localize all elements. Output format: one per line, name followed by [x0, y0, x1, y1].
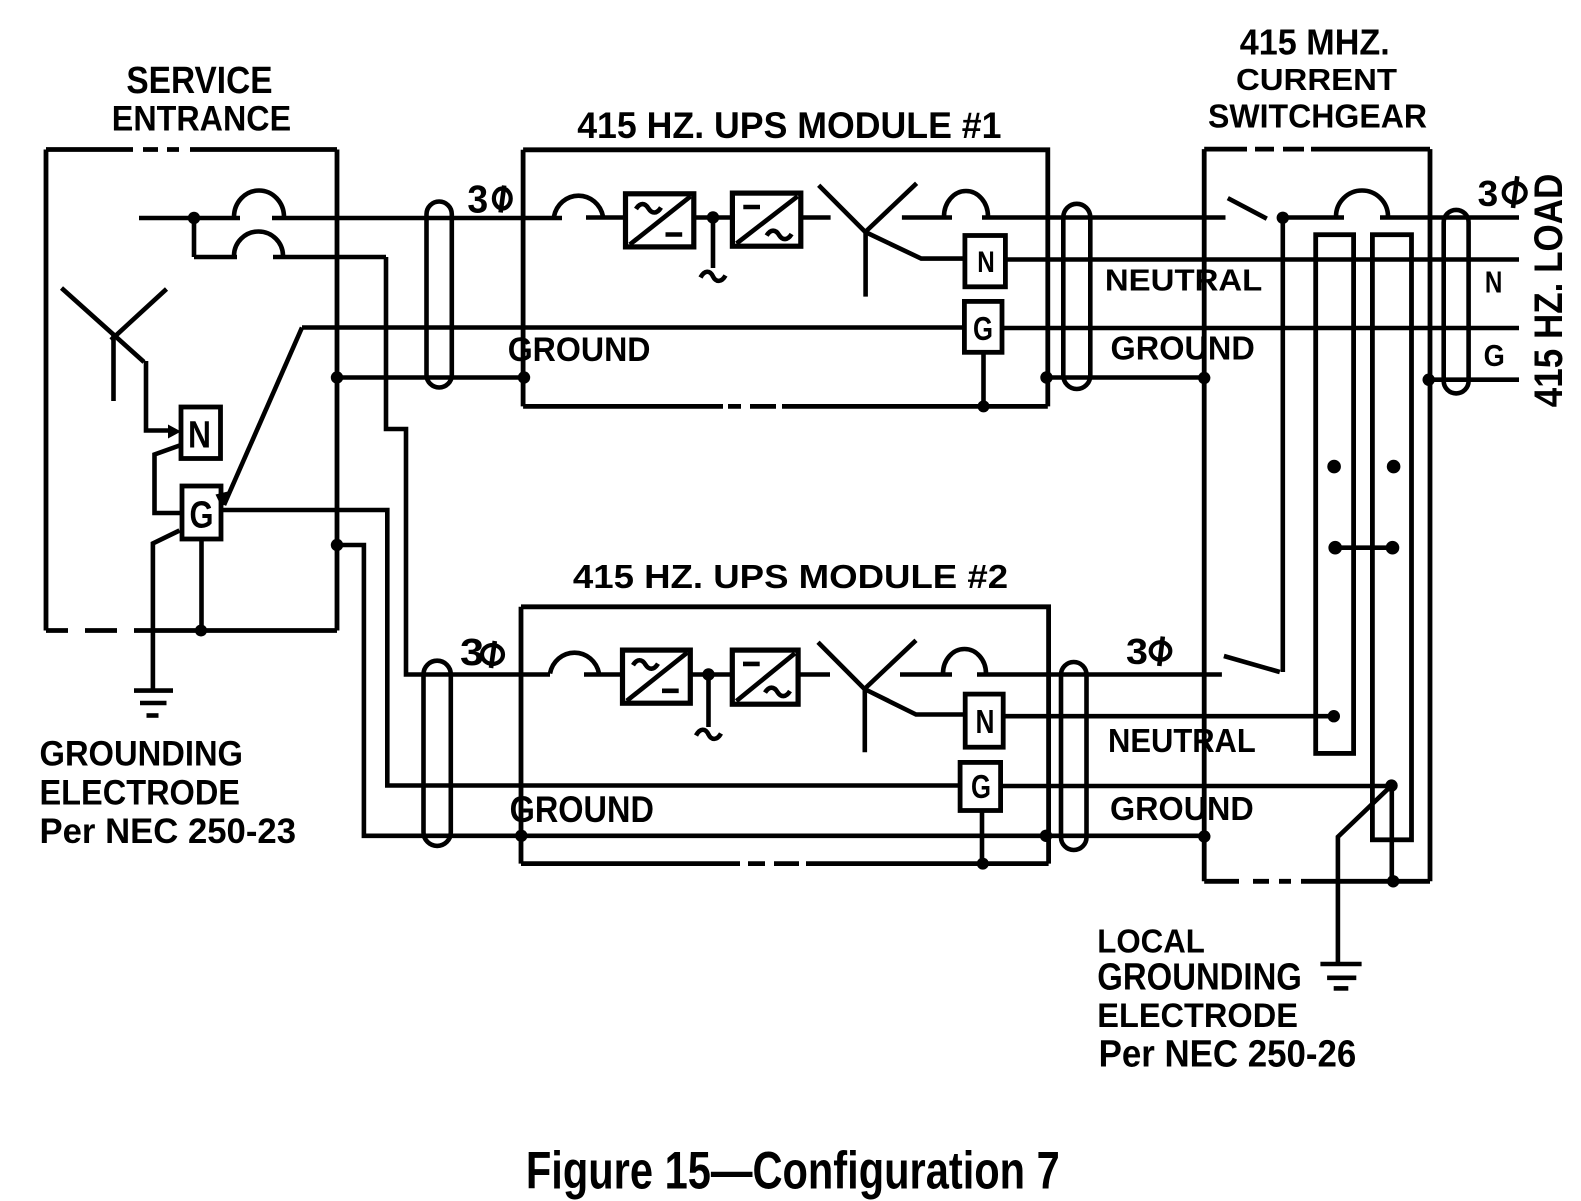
wire local grounding electrode conductor [1338, 786, 1392, 962]
svg-text:GROUND: GROUND [1111, 331, 1255, 368]
node junction dot ground module 2 terminus [1385, 779, 1397, 791]
wire G terminal bottom drop to enclosure bottom [199, 539, 204, 631]
current transformer CT1 loop [1316, 235, 1354, 754]
svg-text:SERVICE: SERVICE [126, 60, 272, 102]
svg-text:415 HZ. UPS MODULE #1: 415 HZ. UPS MODULE #1 [577, 105, 1001, 146]
wire module 1 phase to rectifier [586, 215, 626, 220]
wire paralleling bus vertical [1281, 218, 1286, 672]
wire equipment bond service box to module 1 enclosure [337, 375, 524, 380]
node junction dot module 2 enclosure right (ground run) [1040, 830, 1052, 842]
wire phase B from breaker 2 to down-feed [273, 255, 386, 260]
wire ground spur from G terminal right to module 2 ground bus [221, 510, 960, 786]
label 3-phase (load) [1478, 173, 1526, 214]
wire G terminal drop to module 2 enclosure bottom [980, 811, 985, 864]
svg-text:3: 3 [1126, 631, 1148, 672]
wire phase B drop from junction [192, 218, 197, 257]
wire rectifier to inverter (DC link) [694, 215, 733, 220]
svg-text:LOCAL: LOCAL [1097, 923, 1205, 960]
node J1 junction dot phase tap [188, 212, 200, 224]
disconnect switch S1 in service entrance [62, 288, 167, 401]
wire neutral module 2 to switchgear [1003, 714, 1334, 719]
node junction dot module 2 enclosure bottom [977, 858, 989, 870]
wire switchgear output phase to load [1380, 215, 1519, 220]
cable shield oval module 1 output [1063, 204, 1090, 389]
svg-text:Figure 15—Configuration 7: Figure 15—Configuration 7 [526, 1141, 1060, 1200]
UPS module 2 enclosure box (dashed bottom segment) [521, 607, 1049, 864]
breaker CB1 arc (service, phase to module 1) [234, 191, 284, 217]
svg-text:Per NEC 250-23: Per NEC 250-23 [40, 811, 297, 851]
wire ground bus from service entrance to module 1 G terminal [302, 325, 964, 330]
node junction dot on enclosure bottom [195, 625, 207, 637]
arrowhead into N terminal [168, 425, 181, 439]
svg-text:NEUTRAL: NEUTRAL [1105, 262, 1262, 297]
svg-text:G: G [971, 768, 991, 805]
node junction dot module 1 enclosure right [1040, 371, 1052, 383]
node junction dot switchgear left edge lower [1198, 830, 1210, 842]
svg-text:GROUNDING: GROUNDING [40, 733, 244, 773]
CT secondary link with terminal dots [1328, 541, 1399, 555]
wire phase A stub in service entrance [139, 216, 240, 221]
svg-text:N: N [188, 415, 211, 457]
breaker CB2 arc (service, phase to module 2) [234, 232, 283, 257]
wire ground drop to switchgear bottom [1390, 786, 1395, 882]
svg-text:415 HZ. LOAD: 415 HZ. LOAD [1527, 174, 1571, 408]
svg-text:SWITCHGEAR: SWITCHGEAR [1208, 98, 1427, 135]
wire static switch bypass segment [902, 215, 952, 220]
wire ground bus module 2 G to switchgear [1001, 784, 1392, 789]
svg-text:G: G [190, 495, 214, 537]
breaker CB4 arc (module 1 output) [944, 191, 988, 217]
svg-text:GROUND: GROUND [1110, 790, 1254, 827]
switch blade SW2 (module 2 feed) [1224, 656, 1280, 672]
service entrance enclosure box (dashed top/bottom segments) [46, 150, 337, 631]
svg-text:415 MHZ.: 415 MHZ. [1240, 21, 1390, 62]
switch blade SW1 (module 1 feed) [1228, 198, 1267, 219]
node junction dot paralleling bus top [1277, 212, 1289, 224]
wire rectifier to inverter (module 2 DC link) [690, 672, 732, 677]
wire ground run service box down to module 2 level [337, 545, 1204, 836]
UPS module 1 enclosure box (dashed bottom segment) [523, 150, 1048, 407]
inverter U4 (module 2) [732, 650, 798, 704]
label LOCAL GROUNDING ELECTRODE Per NEC 250-26 [1097, 923, 1356, 1076]
rectifier U3 (module 2) [623, 650, 691, 703]
wire ground bus diagonal riser from G to ground bus [224, 328, 302, 506]
breaker CB7 arc (switchgear output) [1336, 191, 1388, 217]
node junction dot switchgear right edge load ground tap [1423, 374, 1435, 386]
label 3-phase (module 1 input) [467, 179, 510, 222]
svg-text:GROUND: GROUND [510, 789, 654, 830]
node J3 DC link junction dot (module 2) [702, 668, 714, 680]
terminal box N (service entrance) [181, 407, 221, 459]
svg-text:3: 3 [467, 179, 488, 222]
cable shield oval module 2 input [424, 661, 451, 846]
rectifier U1 (module 1) [626, 194, 694, 247]
CT2 polarity dot upper [1387, 460, 1401, 474]
ground electrode symbol (local) [1320, 964, 1361, 988]
label 415 MHZ. CURRENT SWITCHGEAR [1208, 21, 1427, 135]
battery feed stub with AC squiggle (module 2) [696, 675, 721, 739]
battery feed stub with AC squiggle (module 1) [701, 218, 726, 281]
terminal box G (module 2) [960, 762, 1001, 810]
svg-text:G: G [1484, 338, 1505, 373]
svg-text:Per NEC 250-26: Per NEC 250-26 [1099, 1034, 1357, 1076]
terminal box N (module 2) [965, 694, 1003, 747]
wire inverter output to static switch [801, 215, 831, 220]
node junction dot module 1 enclosure bottom [978, 400, 990, 412]
breaker CB3 arc (module 1 input) [554, 196, 603, 217]
svg-text:N: N [976, 703, 995, 740]
wire equipment bond module 1 to switchgear [1047, 375, 1205, 380]
CT1 polarity dot upper [1327, 460, 1341, 474]
node junction dot neutral module 2 terminus [1328, 710, 1340, 722]
node junction dot module 2 enclosure left (ground run) [515, 830, 527, 842]
svg-text:3: 3 [1478, 173, 1499, 214]
cable shield oval load feeder [1444, 210, 1469, 394]
label 3-phase (module 2 output) [1126, 631, 1170, 672]
wire from switch S1 to neutral terminal N [146, 361, 172, 431]
label 3-phase (module 2 input) [460, 632, 503, 674]
svg-text:ENTRANCE: ENTRANCE [112, 99, 291, 138]
inverter U2 (module 1) [732, 193, 800, 246]
cable shield oval module 2 output [1061, 662, 1087, 850]
node junction dot service box edge to module 2 ground run [331, 539, 343, 551]
wire phase A from service breaker to UPS module 1 [272, 216, 562, 221]
wire phase B run to breaker 2 [194, 255, 237, 260]
wire module 1 output phase to switchgear [982, 215, 1226, 220]
ground electrode symbol (service) [134, 691, 173, 716]
svg-text:ELECTRODE: ELECTRODE [1097, 997, 1298, 1035]
wire switchgear phase to output breaker [1283, 215, 1344, 220]
wire inverter output to static switch (module 2) [798, 672, 830, 677]
label GROUNDING ELECTRODE Per NEC 250-23 [40, 733, 297, 851]
terminal box N (module 1) [965, 236, 1006, 287]
svg-text:N: N [977, 246, 995, 279]
node J2 DC link junction dot [707, 211, 719, 223]
svg-text:G: G [973, 310, 993, 347]
svg-text:415 HZ. UPS MODULE #2: 415 HZ. UPS MODULE #2 [573, 558, 1008, 595]
svg-text:GROUNDING: GROUNDING [1097, 957, 1302, 999]
wire ground bus module 1 G to load [1002, 326, 1519, 331]
svg-text:GROUND: GROUND [508, 331, 651, 369]
wire static switch bypass segment (module 2) [900, 672, 952, 677]
svg-text:N: N [1485, 264, 1503, 299]
breaker CB5 arc (module 2 input) [550, 653, 599, 674]
node junction dot module 1 enclosure left [518, 371, 530, 383]
label SERVICE ENTRANCE [112, 60, 291, 139]
current transformer CT2 loop [1372, 235, 1411, 840]
node junction dot switchgear left edge upper [1198, 372, 1210, 384]
breaker CB6 arc (module 2 output) [943, 649, 986, 674]
node junction dot service box edge to bond wire [331, 371, 343, 383]
wire neutral module 1 to load bus [1005, 257, 1519, 262]
svg-text:NEUTRAL: NEUTRAL [1108, 722, 1256, 759]
static switch SS1 (module 1) [819, 183, 965, 296]
wire load ground tap to load [1429, 377, 1519, 382]
terminal box G (service entrance) [182, 486, 221, 539]
terminal box G (module 1) [964, 301, 1002, 352]
svg-text:ELECTRODE: ELECTRODE [40, 773, 241, 813]
node junction dot switchgear bottom edge [1387, 875, 1399, 887]
cable shield oval module 1 input [427, 202, 452, 388]
wire G terminal drop to module 1 enclosure bottom [981, 352, 986, 406]
svg-text:CURRENT: CURRENT [1236, 62, 1397, 97]
static switch SS2 (module 2) [818, 640, 965, 752]
switchgear enclosure box (dashed top/bottom segments) [1204, 149, 1430, 881]
wire neutral-ground bonding jumper N to G [155, 445, 183, 513]
arrowhead into G terminal top-right [216, 491, 233, 509]
wire module 2 phase to rectifier [584, 672, 623, 677]
wire phase B vertical feed with jog to module 2 [386, 257, 550, 675]
wire grounding electrode conductor from G to earth [153, 531, 180, 691]
wire module 2 output phase to switchgear [977, 672, 1222, 677]
